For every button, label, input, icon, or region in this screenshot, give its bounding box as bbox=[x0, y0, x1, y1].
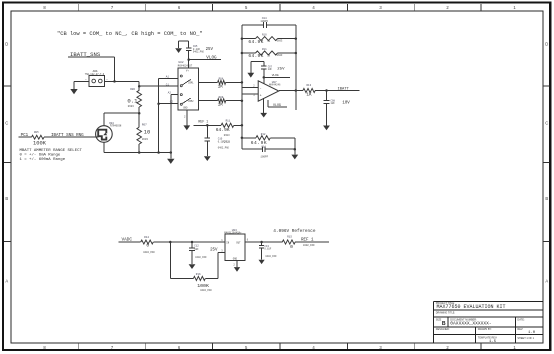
svg-text:64.9K: 64.9K bbox=[248, 53, 263, 59]
svg-text:1.0: 1.0 bbox=[528, 331, 536, 335]
svg-text:4.096V Reference: 4.096V Reference bbox=[273, 229, 316, 234]
svg-text:IBATT: IBATT bbox=[338, 87, 350, 91]
svg-text:MAX4624EUT: MAX4624EUT bbox=[178, 65, 193, 68]
svg-text:0603: 0603 bbox=[128, 105, 135, 108]
svg-text:1UF: 1UF bbox=[331, 102, 336, 105]
svg-text:R12: R12 bbox=[261, 133, 266, 136]
svg-text:25V: 25V bbox=[210, 248, 218, 252]
svg-text:0402_PAD: 0402_PAD bbox=[265, 255, 277, 258]
svg-text:NTR4003N: NTR4003N bbox=[110, 124, 122, 127]
svg-text:64.9K: 64.9K bbox=[248, 39, 263, 45]
svg-text:R07: R07 bbox=[142, 124, 147, 127]
svg-text:A: A bbox=[545, 279, 548, 284]
svg-text:MAX44246: MAX44246 bbox=[269, 84, 281, 87]
svg-text:REV:: REV: bbox=[517, 328, 523, 331]
svg-text:C: C bbox=[545, 120, 548, 125]
svg-text:REF 1: REF 1 bbox=[301, 239, 314, 243]
svg-text:R11: R11 bbox=[226, 119, 231, 122]
svg-text:R08: R08 bbox=[219, 78, 224, 81]
svg-text:0: 0 bbox=[290, 244, 293, 250]
svg-text:MAX77650 EVALUATION KIT: MAX77650 EVALUATION KIT bbox=[437, 304, 506, 310]
svg-text:"CB low = COM_ to NC_, CB high: "CB low = COM_ to NC_, CB high = COM_ to… bbox=[57, 31, 203, 37]
svg-text:A2: A2 bbox=[168, 92, 172, 95]
svg-text:VLOG: VLOG bbox=[272, 74, 279, 77]
svg-text:DRAWING TITLE:: DRAWING TITLE: bbox=[436, 311, 456, 314]
svg-text:A1: A1 bbox=[166, 76, 170, 79]
svg-text:GND: GND bbox=[183, 107, 188, 110]
svg-text:0603: 0603 bbox=[224, 134, 230, 137]
svg-text:10: 10 bbox=[144, 130, 150, 136]
svg-text:0603: 0603 bbox=[142, 138, 149, 141]
svg-text:SIZE: SIZE bbox=[436, 318, 442, 321]
svg-text:0402_PAD: 0402_PAD bbox=[218, 147, 230, 150]
svg-text:C1: C1 bbox=[166, 83, 170, 86]
svg-text:-: - bbox=[260, 87, 262, 91]
svg-text:0402_PAD: 0402_PAD bbox=[195, 256, 207, 259]
svg-text:1.5: 1.5 bbox=[489, 340, 497, 344]
svg-text:C11: C11 bbox=[261, 145, 266, 148]
svg-text:R16: R16 bbox=[196, 273, 201, 276]
svg-text:R10: R10 bbox=[262, 33, 267, 36]
svg-text:R13: R13 bbox=[307, 84, 312, 87]
svg-text:25V: 25V bbox=[277, 68, 285, 72]
svg-text:0AXXXXX_XXXXXX-: 0AXXXXX_XXXXXX- bbox=[450, 321, 491, 327]
svg-text:VLOG: VLOG bbox=[206, 56, 217, 61]
svg-text:D: D bbox=[5, 42, 8, 47]
svg-text:100K: 100K bbox=[33, 141, 47, 147]
svg-text:A: A bbox=[5, 279, 8, 284]
svg-text:DRAWN BY:: DRAWN BY: bbox=[478, 328, 492, 331]
svg-text:B: B bbox=[442, 321, 446, 327]
svg-text:MAX6126AASA+: MAX6126AASA+ bbox=[224, 231, 242, 234]
svg-text:1K: 1K bbox=[218, 84, 224, 89]
svg-text:TSW-102-07-T-S: TSW-102-07-T-S bbox=[85, 73, 105, 76]
svg-text:0402_PAD: 0402_PAD bbox=[143, 251, 155, 254]
svg-text:0603: 0603 bbox=[277, 40, 283, 43]
svg-text:100PF: 100PF bbox=[260, 20, 268, 23]
svg-text:1K: 1K bbox=[306, 92, 312, 97]
svg-text:R09: R09 bbox=[219, 96, 224, 99]
svg-text:R14: R14 bbox=[144, 236, 149, 239]
svg-text:GND: GND bbox=[233, 257, 238, 260]
svg-text:1K: 1K bbox=[218, 103, 224, 108]
svg-text:COM2: COM2 bbox=[188, 100, 194, 103]
svg-text:D: D bbox=[545, 42, 548, 47]
svg-text:100PF: 100PF bbox=[260, 156, 268, 159]
svg-text:0: 0 bbox=[146, 243, 149, 249]
svg-text:VLOG: VLOG bbox=[273, 103, 281, 107]
svg-text:REF 1: REF 1 bbox=[198, 119, 208, 123]
svg-text:1UF: 1UF bbox=[268, 68, 273, 71]
svg-text:COM1: COM1 bbox=[188, 81, 194, 84]
svg-text:1UF: 1UF bbox=[194, 248, 199, 251]
svg-text:0 = +/- 6mA Range: 0 = +/- 6mA Range bbox=[20, 152, 61, 157]
svg-text:R15: R15 bbox=[287, 236, 292, 239]
svg-text:C: C bbox=[5, 120, 8, 125]
svg-text:OUT: OUT bbox=[236, 242, 241, 245]
svg-text:C2: C2 bbox=[170, 101, 174, 104]
svg-text:0402_PAD: 0402_PAD bbox=[303, 244, 315, 247]
svg-text:B: B bbox=[545, 196, 548, 201]
svg-text:25V: 25V bbox=[206, 48, 214, 52]
svg-text:0603: 0603 bbox=[277, 54, 283, 57]
svg-text:U02: U02 bbox=[179, 61, 184, 64]
svg-text:+: + bbox=[260, 95, 262, 99]
svg-text:DESIGNER:: DESIGNER: bbox=[436, 328, 450, 331]
svg-text:DATE:: DATE: bbox=[517, 318, 524, 321]
svg-text:0.1: 0.1 bbox=[127, 98, 138, 105]
svg-text:R06: R06 bbox=[130, 88, 135, 91]
svg-text:64.9K: 64.9K bbox=[216, 127, 230, 133]
svg-text:R11: R11 bbox=[262, 48, 267, 51]
svg-text:10V: 10V bbox=[342, 102, 350, 106]
svg-text:0.1UF: 0.1UF bbox=[264, 248, 272, 251]
svg-text:0402_PAD: 0402_PAD bbox=[200, 289, 212, 292]
svg-text:B: B bbox=[5, 196, 8, 201]
svg-text:IBATT SNS RNG: IBATT SNS RNG bbox=[51, 134, 84, 138]
svg-text:R05: R05 bbox=[34, 131, 39, 134]
svg-text:0402_PAD: 0402_PAD bbox=[193, 50, 205, 53]
svg-text:1 = +/- 600mA Range: 1 = +/- 600mA Range bbox=[20, 157, 66, 162]
svg-text:SHEET 1 OF 1: SHEET 1 OF 1 bbox=[517, 337, 534, 340]
svg-text:MBATT AMMETER RANGE SELECT: MBATT AMMETER RANGE SELECT bbox=[20, 149, 83, 153]
svg-text:25V: 25V bbox=[224, 141, 231, 145]
